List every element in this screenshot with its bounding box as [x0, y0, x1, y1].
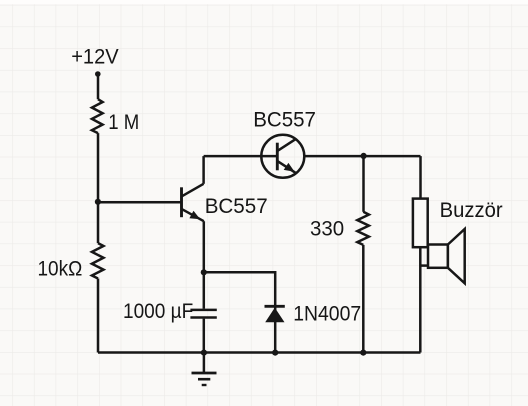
node +12V supply dot: [95, 71, 101, 77]
wire node A to R2: [97, 202, 100, 243]
speaker box: [428, 245, 448, 268]
node B junction dot: [201, 269, 207, 275]
junction dot R3 rail: [360, 350, 366, 356]
wire R3 to ground rail: [362, 245, 365, 353]
wire buzzer bottom: [419, 247, 422, 352]
node A junction dot: [95, 199, 101, 205]
wire stub to speaker: [420, 264, 428, 267]
transistor Q2 BC557: [261, 135, 304, 178]
wire Q1 collector to Q2: [204, 155, 278, 158]
wire supply to R1: [97, 74, 100, 99]
wire node A to Q1 base: [98, 201, 182, 204]
wire node C corner to buzzer: [419, 156, 422, 199]
wire R1 to node A: [97, 133, 100, 202]
svg-text:BC557: BC557: [253, 108, 316, 131]
svg-text:1N4007: 1N4007: [293, 303, 361, 326]
svg-text:Buzzör: Buzzör: [440, 199, 503, 222]
node C junction dot: [361, 153, 367, 159]
wire node C to R3: [362, 156, 365, 212]
svg-text:1 M: 1 M: [108, 111, 139, 134]
junction dot diode rail: [272, 350, 278, 356]
capacitor C1 1000uF: [190, 309, 216, 312]
svg-text:10kΩ: 10kΩ: [38, 257, 83, 280]
ground rail wire: [98, 351, 421, 354]
wire capacitor to rail: [203, 319, 206, 353]
transistor Q1 BC557: [180, 187, 183, 217]
wire Q1 emitter down: [203, 221, 206, 272]
speaker cone: [448, 229, 465, 283]
svg-text:BC557: BC557: [205, 195, 268, 218]
svg-text:+12V: +12V: [71, 46, 119, 69]
wire node B to diode: [204, 272, 275, 305]
ground symbol: [203, 353, 206, 373]
junction dot cap rail: [201, 350, 207, 356]
resistor R2 10k: [92, 243, 104, 278]
diode D1 1N4007: [274, 305, 277, 352]
wire Q2 to right: [305, 155, 421, 158]
buzzer BZ1 body: [413, 199, 428, 248]
wire node B to capacitor: [203, 272, 206, 308]
svg-text:330: 330: [310, 217, 344, 240]
resistor R3 330: [357, 212, 369, 245]
wire R2 to ground rail: [97, 279, 100, 353]
resistor R1 1M: [92, 99, 103, 133]
svg-text:1000 µF: 1000 µF: [123, 300, 193, 323]
